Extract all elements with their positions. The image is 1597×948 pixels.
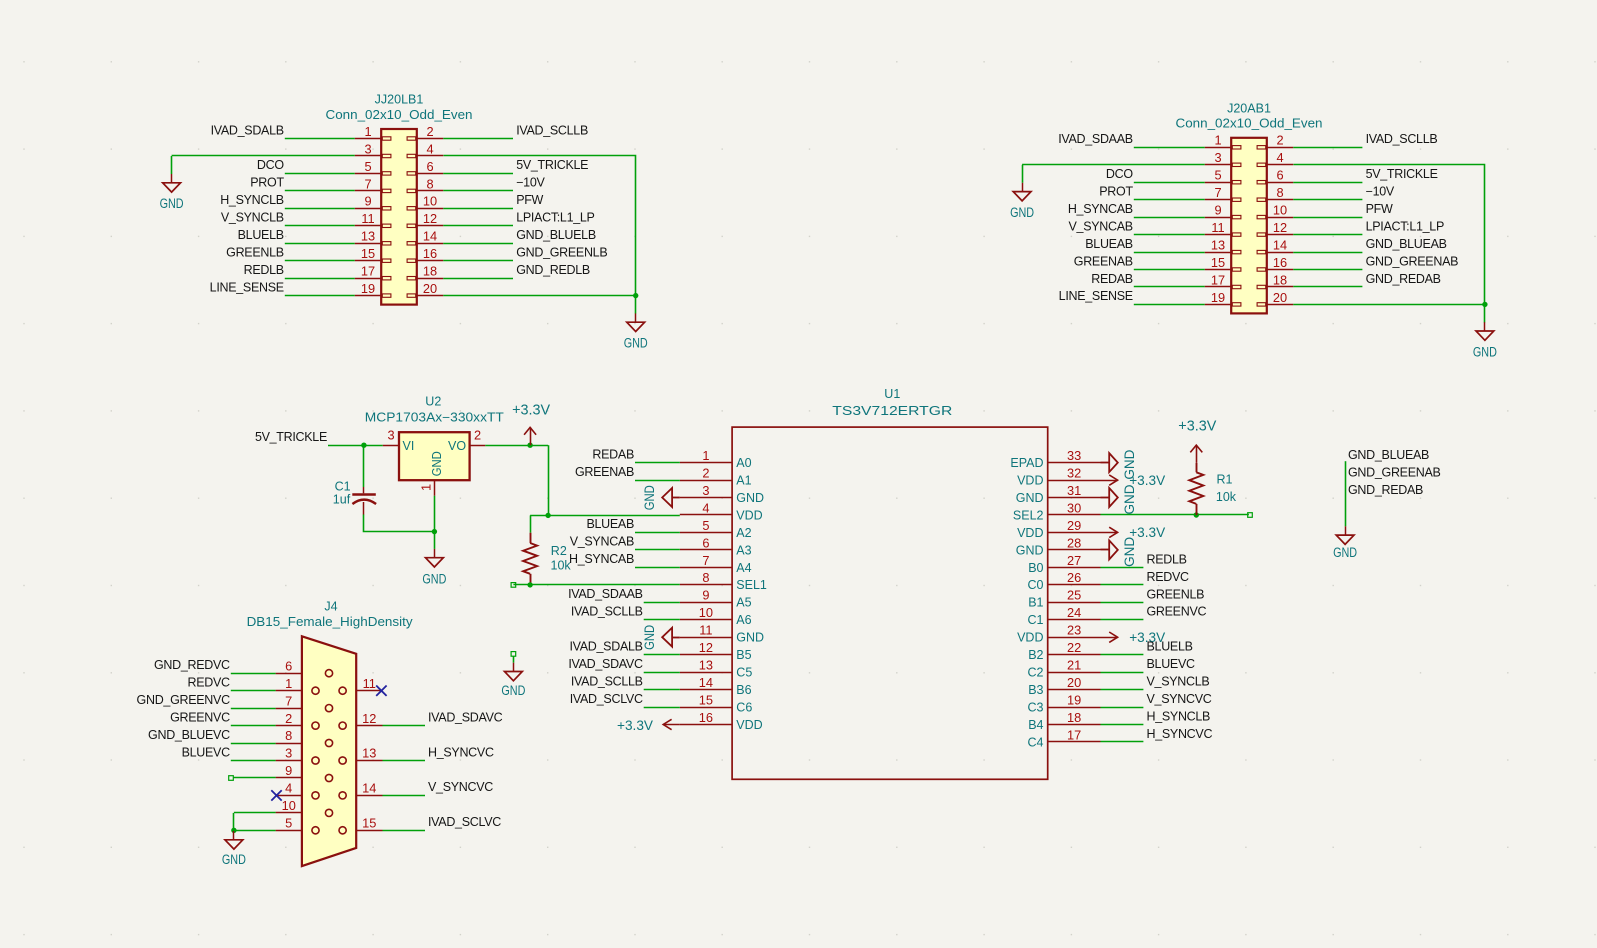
svg-text:2: 2 xyxy=(702,466,709,481)
J4 pin 10 xyxy=(276,798,333,816)
junction SEL2/R1 xyxy=(1194,512,1199,517)
svg-text:VDD: VDD xyxy=(736,508,762,522)
connector JJ20LB1 (Conn_02x10_Odd_Even) body xyxy=(381,129,417,305)
svg-text:J4: J4 xyxy=(324,599,337,613)
svg-text:V_SYNCAB: V_SYNCAB xyxy=(1069,219,1133,233)
U1 pin 13 C5 xyxy=(680,658,753,680)
svg-text:GREENAB: GREENAB xyxy=(575,465,634,479)
svg-text:11: 11 xyxy=(1211,220,1224,235)
wire net DCO xyxy=(1134,182,1205,184)
JJ20LB1 pin 7 xyxy=(355,176,391,192)
wire +3V3 to R2 xyxy=(530,515,532,532)
J20AB1 pin 6 xyxy=(1257,168,1293,184)
wire net GREENAB xyxy=(635,480,680,482)
wire net V_SYNCLB xyxy=(1101,689,1144,691)
wire net PROT xyxy=(285,190,355,192)
wire net H_SYNCVC xyxy=(1101,741,1144,743)
svg-text:GREENVC: GREENVC xyxy=(170,710,230,724)
JJ20LB1 pin 4 xyxy=(407,141,443,157)
svg-text:C6: C6 xyxy=(736,700,752,714)
svg-text:J20AB1: J20AB1 xyxy=(1227,101,1271,115)
U1 pin 23 VDD xyxy=(1017,623,1100,645)
U1 pin 20 B3 xyxy=(1028,675,1100,697)
svg-text:16: 16 xyxy=(1273,255,1287,270)
svg-text:R2: R2 xyxy=(551,544,567,558)
svg-text:15: 15 xyxy=(361,246,375,261)
JJ20LB1 pin 8 xyxy=(407,176,443,192)
svg-text:B2: B2 xyxy=(1028,648,1043,662)
U1 pin 6 A3 xyxy=(680,535,752,557)
U1 pin 21 C2 xyxy=(1028,658,1101,680)
svg-text:19: 19 xyxy=(361,281,375,296)
U1 pin 28 GND xyxy=(1016,535,1101,557)
svg-text:GND: GND xyxy=(222,852,246,868)
connector J4 DB15_Female_HighDensity body xyxy=(302,636,356,866)
JJ20LB1 pin 17 xyxy=(355,264,391,280)
svg-text:1: 1 xyxy=(702,448,709,463)
svg-text:SEL2: SEL2 xyxy=(1013,508,1044,522)
U1 pin 11 GND xyxy=(680,623,764,645)
wire net BLUEVC xyxy=(1101,672,1144,674)
JJ20LB1 pin 12 xyxy=(407,211,443,227)
svg-text:5V_TRICKLE: 5V_TRICKLE xyxy=(255,430,327,444)
svg-text:A5: A5 xyxy=(736,596,751,610)
svg-text:10: 10 xyxy=(282,798,296,813)
svg-text:VDD: VDD xyxy=(1017,474,1043,488)
svg-text:PFW: PFW xyxy=(1366,202,1393,216)
wire GND drop xyxy=(434,532,436,549)
svg-text:H_SYNCVC: H_SYNCVC xyxy=(428,745,494,759)
J20AB1 pin 13 xyxy=(1205,238,1241,254)
svg-text:1uf: 1uf xyxy=(333,493,351,507)
dangling wire end SEL1 xyxy=(511,583,516,588)
svg-text:28: 28 xyxy=(1067,535,1081,550)
svg-text:IVAD_SDAAB: IVAD_SDAAB xyxy=(568,587,643,601)
JJ20LB1 pin 15 xyxy=(355,246,391,262)
svg-text:20: 20 xyxy=(423,281,437,296)
svg-text:4: 4 xyxy=(426,141,433,156)
svg-text:6: 6 xyxy=(285,658,292,673)
svg-text:31: 31 xyxy=(1067,483,1081,498)
svg-text:GND: GND xyxy=(501,683,525,699)
svg-text:2: 2 xyxy=(1276,133,1283,148)
svg-text:5: 5 xyxy=(702,518,709,533)
wire net IVAD_SCLLB xyxy=(443,138,513,140)
wire GND_* rail xyxy=(1345,461,1347,526)
svg-text:V_SYNCAB: V_SYNCAB xyxy=(570,535,634,549)
wire net GND_BLUEVC xyxy=(231,743,276,745)
power symbol +3.3V (left arrow) xyxy=(617,717,680,733)
svg-text:GND_GREENLB: GND_GREENLB xyxy=(516,246,607,260)
U1 pin 33 EPAD xyxy=(1010,448,1100,470)
svg-text:GREENLB: GREENLB xyxy=(1147,587,1205,601)
svg-text:GND_GREENVC: GND_GREENVC xyxy=(137,693,231,707)
svg-text:20: 20 xyxy=(1273,290,1287,305)
svg-text:12: 12 xyxy=(1273,220,1287,235)
wire net LINE_SENSE xyxy=(1134,304,1205,306)
J20AB1 pin 20 xyxy=(1257,290,1293,306)
svg-text:B4: B4 xyxy=(1028,718,1043,732)
wire +3V3 from VO xyxy=(485,445,548,447)
svg-text:29: 29 xyxy=(1067,518,1081,533)
svg-text:GND: GND xyxy=(736,631,764,645)
ground symbol GND xyxy=(1473,322,1497,360)
svg-text:GND_BLUELB: GND_BLUELB xyxy=(516,228,596,242)
svg-text:GND: GND xyxy=(1016,491,1044,505)
U1 pin 10 A6 xyxy=(680,605,752,627)
ground symbol GND xyxy=(422,549,446,588)
svg-text:IVAD_SCLLB: IVAD_SCLLB xyxy=(571,674,643,688)
svg-text:1: 1 xyxy=(364,124,371,139)
svg-text:19: 19 xyxy=(1211,290,1225,305)
svg-text:H_SYNCVC: H_SYNCVC xyxy=(1147,727,1213,741)
svg-text:9: 9 xyxy=(702,588,709,603)
svg-text:+3.3V: +3.3V xyxy=(1129,524,1166,540)
J4 pin 3 xyxy=(276,746,320,764)
wire net DCO xyxy=(285,173,355,175)
svg-text:A1: A1 xyxy=(736,474,751,488)
svg-text:PFW: PFW xyxy=(516,193,543,207)
svg-text:GND_GREENAB: GND_GREENAB xyxy=(1348,465,1441,479)
svg-text:BLUEAB: BLUEAB xyxy=(586,517,634,531)
svg-text:VI: VI xyxy=(403,439,415,453)
svg-text:4: 4 xyxy=(702,500,709,515)
wire net −10V xyxy=(443,190,513,192)
svg-text:7: 7 xyxy=(702,553,709,568)
svg-text:16: 16 xyxy=(699,710,713,725)
U1 pin 16 VDD xyxy=(680,710,763,732)
U1 pin 15 C6 xyxy=(680,692,753,714)
svg-text:GND: GND xyxy=(641,625,657,650)
svg-text:GND: GND xyxy=(736,491,764,505)
wire net V_SYNCAB xyxy=(1134,234,1205,236)
svg-text:17: 17 xyxy=(1067,727,1081,742)
svg-text:GREENVC: GREENVC xyxy=(1147,605,1207,619)
ground symbol GND xyxy=(624,313,648,351)
ground symbol GND xyxy=(1333,526,1357,561)
svg-text:VDD: VDD xyxy=(1017,631,1043,645)
wire net IVAD_SCLVC xyxy=(383,830,426,832)
JJ20LB1 pin 13 xyxy=(355,229,391,245)
JJ20LB1 pin 19 xyxy=(355,281,391,297)
wire net V_SYNCLB xyxy=(285,225,355,227)
J4 pin 1 xyxy=(276,676,320,694)
svg-text:24: 24 xyxy=(1067,605,1081,620)
svg-text:7: 7 xyxy=(364,176,371,191)
wire net IVAD_SDAAB xyxy=(1134,147,1205,149)
wire net IVAD_SCLLB xyxy=(644,689,680,691)
ground symbol GND xyxy=(222,831,246,868)
wire net GND_GREENAB xyxy=(1293,269,1362,271)
svg-text:3: 3 xyxy=(285,746,292,761)
svg-text:B3: B3 xyxy=(1028,683,1043,697)
svg-text:BLUEVC: BLUEVC xyxy=(1147,657,1195,671)
wire net IVAD_SCLLB xyxy=(644,619,680,621)
wire net BLUEAB xyxy=(635,532,680,534)
svg-text:C5: C5 xyxy=(736,666,752,680)
svg-text:27: 27 xyxy=(1067,553,1081,568)
svg-text:GND_GREENAB: GND_GREENAB xyxy=(1366,254,1459,268)
JJ20LB1 pin 5 xyxy=(355,159,391,175)
svg-text:8: 8 xyxy=(702,570,709,585)
wire net IVAD_SDAAB xyxy=(644,602,680,604)
svg-text:8: 8 xyxy=(426,176,433,191)
svg-text:A6: A6 xyxy=(736,613,751,627)
wire J20AB1 pin4 GND rail xyxy=(1294,165,1485,323)
U1 pin 29 VDD xyxy=(1017,518,1100,540)
svg-text:A0: A0 xyxy=(736,456,751,470)
J20AB1 pin 2 xyxy=(1257,133,1293,149)
svg-text:+3.3V: +3.3V xyxy=(512,402,550,419)
svg-text:2: 2 xyxy=(426,124,433,139)
power symbol +3.3V (right arrow) xyxy=(1101,524,1166,540)
svg-text:IVAD_SDAVC: IVAD_SDAVC xyxy=(568,657,643,671)
wire net IVAD_SCLVC xyxy=(644,707,680,709)
svg-text:9: 9 xyxy=(285,763,292,778)
junction GND node xyxy=(432,529,437,534)
svg-text:V_SYNCVC: V_SYNCVC xyxy=(428,780,493,794)
svg-text:REDAB: REDAB xyxy=(592,447,634,461)
wire net GREENLB xyxy=(1101,602,1144,604)
svg-text:18: 18 xyxy=(423,264,437,279)
ground symbol GND xyxy=(1010,183,1034,221)
JJ20LB1 pin 18 xyxy=(407,264,443,280)
svg-text:C1: C1 xyxy=(335,479,351,493)
svg-text:14: 14 xyxy=(1273,238,1287,253)
wire net 5V_TRICKLE xyxy=(1293,182,1362,184)
power symbol +3.3V (right arrow) xyxy=(1101,629,1166,645)
svg-text:VO: VO xyxy=(448,439,466,453)
svg-text:GND: GND xyxy=(624,336,648,352)
J4 pin 2 xyxy=(276,711,320,729)
wire net REDVC xyxy=(1101,584,1144,586)
wire net REDVC xyxy=(231,690,276,692)
svg-text:5: 5 xyxy=(285,816,292,831)
wire GND stub xyxy=(513,656,515,663)
svg-text:GND_BLUEVC: GND_BLUEVC xyxy=(148,728,230,742)
svg-text:V_SYNCVC: V_SYNCVC xyxy=(1147,692,1212,706)
svg-text:6: 6 xyxy=(426,159,433,174)
svg-text:GREENLB: GREENLB xyxy=(226,246,284,260)
wire net GND_REDLB xyxy=(443,278,513,280)
svg-text:3: 3 xyxy=(387,427,394,442)
U1 pin 27 B0 xyxy=(1028,553,1100,575)
wire net GREENLB xyxy=(285,260,355,262)
U1 pin 14 B6 xyxy=(680,675,752,697)
svg-text:GND: GND xyxy=(641,485,657,510)
J20AB1 pin 17 xyxy=(1205,272,1241,288)
svg-text:14: 14 xyxy=(362,781,376,796)
IC U1 TS3V712ERTGR body xyxy=(732,427,1048,779)
junction GND rail / pin20 xyxy=(1482,302,1487,307)
svg-text:IVAD_SCLLB: IVAD_SCLLB xyxy=(1366,132,1438,146)
svg-text:GND: GND xyxy=(1122,484,1137,514)
U1 pin 12 B5 xyxy=(680,640,752,662)
JJ20LB1 pin 16 xyxy=(407,246,443,262)
svg-text:2: 2 xyxy=(285,711,292,726)
wire net BLUEAB xyxy=(1134,252,1205,254)
svg-text:17: 17 xyxy=(361,264,375,279)
wire net LPIACT:L1_LP xyxy=(443,225,513,227)
svg-text:REDLB: REDLB xyxy=(244,263,284,277)
U1 pin 18 B4 xyxy=(1028,710,1100,732)
svg-text:TS3V712ERTGR: TS3V712ERTGR xyxy=(832,404,952,418)
svg-text:C0: C0 xyxy=(1028,578,1044,592)
wire net −10V xyxy=(1293,199,1362,201)
resistor R1 10k xyxy=(1189,463,1203,515)
svg-text:14: 14 xyxy=(423,229,437,244)
wire net V_SYNCAB xyxy=(635,549,680,551)
svg-text:15: 15 xyxy=(1211,255,1225,270)
svg-text:H_SYNCLB: H_SYNCLB xyxy=(220,193,284,207)
svg-text:C2: C2 xyxy=(1028,666,1044,680)
wire net LPIACT:L1_LP xyxy=(1293,234,1362,236)
svg-text:LINE_SENSE: LINE_SENSE xyxy=(1059,289,1133,303)
resistor R2 10k xyxy=(523,533,537,585)
junction +3V3 node xyxy=(545,513,550,518)
J20AB1 pin 12 xyxy=(1257,220,1293,236)
svg-text:C4: C4 xyxy=(1028,735,1044,749)
svg-text:LINE_SENSE: LINE_SENSE xyxy=(210,280,284,294)
svg-text:6: 6 xyxy=(702,535,709,550)
regulator U2 MCP1703Ax-330xxTT body xyxy=(399,432,470,480)
power symbol +3.3V (up arrow) xyxy=(512,402,550,446)
svg-text:21: 21 xyxy=(1067,658,1081,673)
JJ20LB1 pin 9 xyxy=(355,194,391,210)
U1 pin 24 C1 xyxy=(1028,605,1101,627)
svg-text:8: 8 xyxy=(1276,185,1283,200)
wire net V_SYNCVC xyxy=(1101,707,1144,709)
svg-text:13: 13 xyxy=(699,658,713,673)
J20AB1 pin 15 xyxy=(1205,255,1241,271)
junction GND xyxy=(231,828,236,833)
J4 pin 7 xyxy=(276,693,333,711)
svg-text:GND: GND xyxy=(1016,543,1044,557)
svg-text:GND_BLUEAB: GND_BLUEAB xyxy=(1348,448,1429,462)
wire GND drop xyxy=(1022,165,1024,183)
svg-text:IVAD_SCLLB: IVAD_SCLLB xyxy=(571,605,643,619)
wire net GREENAB xyxy=(1134,269,1205,271)
svg-text:11: 11 xyxy=(361,211,374,226)
svg-text:18: 18 xyxy=(1273,272,1287,287)
U1 pin 17 C4 xyxy=(1028,727,1101,749)
wire net GND_GREENVC xyxy=(231,708,276,710)
svg-text:5V_TRICKLE: 5V_TRICKLE xyxy=(1366,167,1438,181)
wire net IVAD_SDALB xyxy=(285,138,355,140)
svg-text:BLUELB: BLUELB xyxy=(1147,640,1193,654)
svg-text:H_SYNCLB: H_SYNCLB xyxy=(1147,710,1211,724)
power label GND (left arrow) xyxy=(641,485,680,510)
wire net BLUEVC xyxy=(231,760,276,762)
JJ20LB1 pin 1 xyxy=(355,124,391,140)
wire net BLUELB xyxy=(1101,654,1144,656)
capacitor C1 1uf xyxy=(352,487,376,515)
svg-text:LPIACT:L1_LP: LPIACT:L1_LP xyxy=(1366,219,1444,233)
dangling wire end pin9 xyxy=(229,776,234,781)
svg-text:LPIACT:L1_LP: LPIACT:L1_LP xyxy=(516,211,594,225)
wire net H_SYNCVC xyxy=(383,760,426,762)
svg-text:12: 12 xyxy=(423,211,437,226)
svg-text:10: 10 xyxy=(1273,203,1287,218)
wire JJ20LB1 pin3 to GND xyxy=(172,155,355,157)
ground symbol GND xyxy=(160,174,184,212)
J20AB1 pin 5 xyxy=(1205,168,1241,184)
U1 pin 7 A4 xyxy=(680,553,752,575)
svg-text:+3.3V: +3.3V xyxy=(617,717,654,733)
svg-text:GND_REDVC: GND_REDVC xyxy=(154,658,230,672)
svg-text:8: 8 xyxy=(285,728,292,743)
U1 pin 3 GND xyxy=(680,483,764,505)
svg-text:JJ20LB1: JJ20LB1 xyxy=(375,93,424,107)
wire GND drop xyxy=(171,156,173,174)
svg-text:7: 7 xyxy=(1214,185,1221,200)
svg-text:VDD: VDD xyxy=(1017,526,1043,540)
J4 pin 14 xyxy=(339,781,383,799)
connector J20AB1 (Conn_02x10_Odd_Even) body xyxy=(1231,138,1267,314)
svg-text:4: 4 xyxy=(1276,150,1283,165)
svg-text:DCO: DCO xyxy=(257,158,284,172)
svg-text:GND_BLUEAB: GND_BLUEAB xyxy=(1366,237,1447,251)
svg-text:16: 16 xyxy=(423,246,437,261)
svg-text:GND: GND xyxy=(1122,537,1137,567)
U2 pin 2 VO xyxy=(448,427,485,452)
svg-text:U1: U1 xyxy=(884,387,900,401)
svg-text:B6: B6 xyxy=(736,683,751,697)
U2 pin 3 VI xyxy=(383,427,415,452)
svg-text:REDLB: REDLB xyxy=(1147,552,1187,566)
wire net H_SYNCAB xyxy=(1134,217,1205,219)
svg-text:1: 1 xyxy=(285,676,292,691)
svg-text:R1: R1 xyxy=(1217,473,1233,487)
svg-text:EPAD: EPAD xyxy=(1010,456,1043,470)
svg-text:U2: U2 xyxy=(425,395,441,409)
wire net LINE_SENSE xyxy=(285,295,355,297)
JJ20LB1 pin 3 xyxy=(355,141,391,157)
wire pin5 to GND xyxy=(234,830,276,832)
wire +3V3 down xyxy=(548,445,550,515)
wire net REDAB xyxy=(635,462,680,464)
svg-text:26: 26 xyxy=(1067,570,1081,585)
U1 pin 22 B2 xyxy=(1028,640,1100,662)
wire net H_SYNCLB xyxy=(1101,724,1144,726)
wire GND rail xyxy=(233,813,235,830)
svg-text:MCP1703Ax−330xxTT: MCP1703Ax−330xxTT xyxy=(365,411,504,425)
U1 pin 1 A0 xyxy=(680,448,752,470)
wire net GND_GREENLB xyxy=(443,260,513,262)
wire pin10 to GND xyxy=(234,812,276,814)
wire SEL1 to U1 pin8 xyxy=(513,584,679,586)
svg-text:15: 15 xyxy=(362,816,376,831)
junction SEL1 node xyxy=(527,582,532,587)
svg-text:−10V: −10V xyxy=(516,176,545,190)
svg-text:IVAD_SCLVC: IVAD_SCLVC xyxy=(570,692,643,706)
svg-text:4: 4 xyxy=(285,781,292,796)
J4 pin 4 xyxy=(276,781,320,799)
svg-text:B1: B1 xyxy=(1028,596,1043,610)
J20AB1 pin 11 xyxy=(1205,220,1241,236)
svg-text:REDVC: REDVC xyxy=(188,676,231,690)
svg-text:GND: GND xyxy=(430,451,444,476)
power label GND (right arrow) xyxy=(1101,537,1138,567)
J20AB1 pin 18 xyxy=(1257,272,1293,288)
no-connect flag J4 pin 4 xyxy=(271,790,281,800)
dangling wire end stub xyxy=(511,652,516,657)
J20AB1 pin 4 xyxy=(1257,150,1293,166)
svg-text:GND_REDAB: GND_REDAB xyxy=(1348,483,1423,497)
svg-text:A3: A3 xyxy=(736,543,751,557)
wire J20AB1 pin20 to GND rail xyxy=(1293,304,1485,306)
svg-text:11: 11 xyxy=(363,676,376,691)
